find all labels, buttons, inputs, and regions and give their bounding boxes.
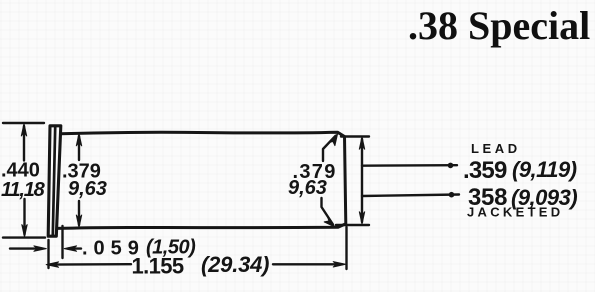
leader line to 358 JACKETED	[362, 192, 459, 198]
extension line right (case mouth)	[345, 227, 347, 269]
dimension .379 left line lower segment with down arrow	[76, 201, 81, 227]
dimension .440 extension line top	[3, 122, 44, 124]
case rim	[48, 126, 61, 236]
dimension .440 line upper segment with up arrow	[21, 124, 26, 161]
svg-text:LEAD: LEAD	[471, 141, 521, 156]
dimension .059 right arrow with shaft	[64, 246, 81, 251]
svg-text:JACKETED: JACKETED	[467, 205, 563, 220]
svg-text:11,18: 11,18	[1, 179, 46, 201]
dimension .379 right upper slanted arrow	[323, 134, 338, 161]
dimension .440 line lower segment with down arrow	[22, 199, 27, 237]
dimension 1.155 right segment with right arrow	[273, 262, 346, 267]
title .38 Special	[408, 6, 590, 46]
mouth diameter dimension line with both arrows	[359, 137, 364, 224]
dimension .059 left shaft with right arrow	[10, 246, 46, 251]
svg-text:9,63: 9,63	[68, 178, 107, 200]
svg-text:(29.34): (29.34)	[201, 252, 269, 277]
svg-text:1.155: 1.155	[132, 254, 184, 279]
extension line right of rim for .059	[61, 226, 63, 258]
dimension .379 left line upper segment with up arrow	[76, 133, 81, 160]
svg-text:9,63: 9,63	[288, 177, 327, 199]
case body outline	[57, 132, 346, 228]
mouth diameter extension tick top	[341, 135, 369, 137]
svg-text:.359: .359	[463, 157, 507, 184]
dimension .379 right lower slanted arrow	[322, 198, 336, 227]
mouth diameter extension tick bottom	[336, 224, 369, 226]
leader line to LEAD .359	[362, 163, 457, 169]
extension line left (case head)	[47, 240, 49, 268]
dimension 1.155 left segment with left arrow	[46, 262, 131, 267]
svg-text:(9,119): (9,119)	[512, 157, 577, 182]
dimension .440 extension line bottom	[3, 236, 45, 238]
